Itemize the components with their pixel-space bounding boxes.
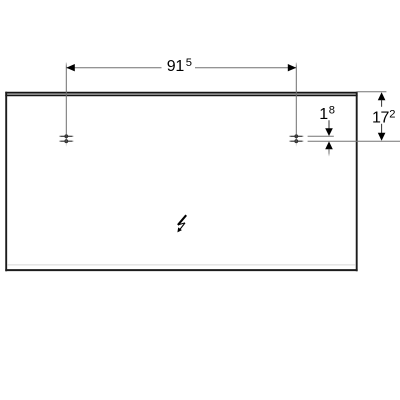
dim 172 up arrowhead [378, 92, 386, 100]
fixing point left [59, 135, 74, 143]
electrical connection lightning symbol [177, 215, 186, 232]
mirror light strip line [7, 264, 356, 266]
mirror right edge [356, 92, 358, 271]
dim 172 lower line segment [381, 124, 383, 134]
dim 18 upper leader line [328, 120, 330, 129]
dim 915 left arrowhead [66, 64, 75, 71]
mirror left edge [5, 92, 7, 271]
dimension line 915 right segment [195, 67, 296, 69]
extension line left of dim 915 [65, 63, 67, 147]
mirror bottom edge [5, 269, 357, 271]
mirror top edge inner line [5, 94, 357, 96]
dim 18 upper extension line [308, 135, 334, 137]
dim 172 top extension line [357, 91, 387, 93]
fixing point right [289, 135, 304, 143]
extension line right of dim 915 [295, 63, 297, 147]
dim 18 lower leader line [328, 149, 330, 156]
dim 18 up arrowhead [325, 141, 333, 149]
dimension line 915 left segment [66, 67, 161, 69]
dim 18 down arrowhead [325, 128, 333, 136]
dim 18 lower extension line [308, 140, 400, 142]
mirror top edge outer line [5, 92, 357, 94]
dim 172 down arrowhead [378, 133, 386, 141]
dim 915 right arrowhead [288, 64, 297, 71]
dim 172 upper line segment [381, 100, 383, 107]
